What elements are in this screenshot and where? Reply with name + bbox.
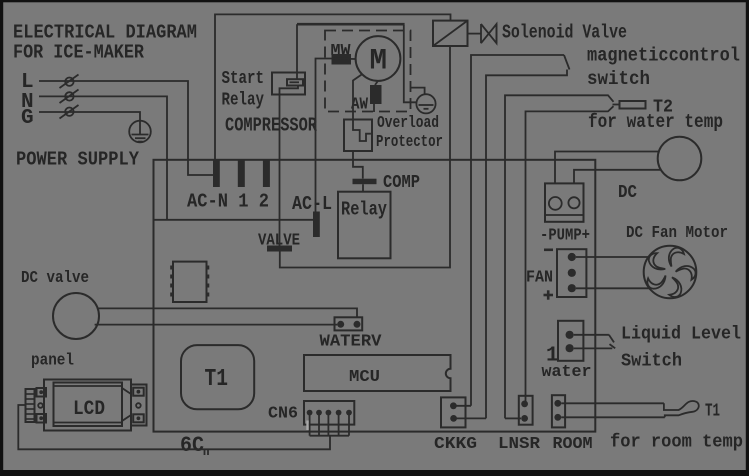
FAN connector	[557, 249, 586, 297]
wire LNSR bottom	[505, 417, 521, 419]
svg-text:WATERV: WATERV	[320, 333, 383, 352]
terminal bar 1	[238, 160, 245, 187]
wire 6C bus to panel	[18, 405, 330, 449]
CKKG connector	[441, 397, 466, 427]
solenoid valve symbol	[468, 24, 497, 43]
wire level switch upper	[574, 335, 614, 343]
svg-text:POWER SUPPLY: POWER SUPPLY	[16, 149, 140, 171]
wire room probe lower	[561, 416, 665, 418]
wire AC-L branch	[154, 219, 314, 221]
wire N line	[39, 96, 167, 220]
wire room probe upper	[561, 402, 664, 404]
DC pump motor circle	[658, 137, 702, 181]
wire T2 lower	[526, 106, 614, 404]
svg-text:LCD: LCD	[73, 398, 105, 421]
wire L line	[39, 81, 213, 175]
relay box	[338, 192, 391, 259]
wire magnetic switch upper	[471, 55, 564, 406]
start relay contact	[287, 79, 303, 85]
wire pump plus	[555, 152, 659, 184]
water level connector	[558, 321, 583, 361]
VALVE terminal bar	[267, 246, 292, 252]
switch on L	[60, 75, 79, 89]
svg-text:Relay: Relay	[341, 199, 387, 221]
LCD right bracket	[131, 385, 147, 426]
MW terminal	[332, 54, 352, 65]
compressor housing (dashed)	[325, 31, 411, 112]
svg-text:Protector: Protector	[376, 133, 443, 152]
svg-text:G: G	[21, 107, 34, 130]
DC valve motor circle	[53, 293, 99, 339]
6C subscript mark	[205, 449, 209, 456]
overload thermal disc	[416, 94, 435, 113]
svg-text:Start: Start	[222, 69, 265, 89]
wire T2 link	[613, 104, 620, 106]
svg-text:for water temp: for water temp	[588, 111, 723, 133]
T1 room probe	[664, 401, 699, 417]
fan motor circle	[644, 246, 697, 299]
artifact light dash	[306, 421, 308, 431]
start relay R box	[272, 73, 305, 95]
wire level switch lower	[574, 344, 616, 348]
svg-text:DC: DC	[618, 183, 637, 203]
svg-text:T1: T1	[205, 366, 229, 393]
switch on G	[60, 105, 79, 119]
svg-text:Solenoid Valve: Solenoid Valve	[502, 22, 627, 44]
AC-N terminal bar	[213, 160, 220, 187]
svg-text:M: M	[370, 45, 388, 79]
motor M circle	[356, 36, 401, 81]
WATERV connector	[335, 317, 363, 330]
main control board box	[154, 160, 596, 432]
svg-text:ROOM: ROOM	[553, 435, 593, 454]
T1 transformer box	[181, 345, 254, 409]
svg-text:COMP: COMP	[383, 173, 420, 193]
thick supply bus	[297, 23, 405, 26]
svg-text:ELECTRICAL DIAGRAM: ELECTRICAL DIAGRAM	[13, 22, 197, 44]
wire CKKG top	[453, 405, 471, 407]
wire relay to VALVE bar	[280, 86, 299, 246]
wire T2 upper	[505, 95, 614, 418]
switch on N	[60, 90, 79, 104]
wire protector to COMP	[353, 151, 363, 179]
wire AW stub	[373, 104, 375, 112]
CN6 connector	[304, 401, 354, 425]
svg-text:switch: switch	[587, 68, 650, 90]
svg-text:-PUMP+: -PUMP+	[540, 227, 590, 246]
svg-text:water: water	[542, 363, 592, 382]
svg-text:DC valve: DC valve	[21, 269, 89, 288]
LCD pin connector	[26, 389, 35, 422]
wire start-relay feed	[296, 24, 298, 79]
wire fan plus	[576, 256, 649, 258]
svg-text:Overload: Overload	[377, 114, 439, 133]
PUMP connector	[545, 183, 584, 221]
svg-text:Switch: Switch	[621, 352, 682, 372]
svg-text:COMPRESSOR: COMPRESSOR	[225, 115, 317, 137]
fan blades	[644, 248, 697, 300]
wire magnetic switch lower	[486, 70, 567, 419]
ROOM connector	[552, 395, 565, 427]
terminal bar 2	[263, 160, 270, 187]
svg-text:FOR ICE-MAKER: FOR ICE-MAKER	[13, 42, 144, 64]
wire housing top to overload	[404, 25, 417, 102]
wire G line	[39, 112, 140, 135]
svg-text:AC-N 1 2: AC-N 1 2	[187, 191, 269, 213]
minus sign (fan)	[544, 249, 553, 252]
wire main winding to protector	[353, 74, 362, 119]
svg-text:Liquid Level: Liquid Level	[621, 325, 741, 345]
svg-text:magneticcontrol: magneticcontrol	[587, 45, 740, 67]
switch blade	[564, 55, 570, 70]
MCU box	[304, 355, 451, 391]
plus sign (fan)	[544, 290, 554, 299]
svg-text:LNSR: LNSR	[498, 435, 541, 454]
ground (protective earth)	[129, 121, 151, 143]
svg-text:FAN: FAN	[526, 269, 553, 288]
wire DC valve lower	[95, 324, 338, 326]
solenoid coil box	[433, 21, 468, 46]
svg-text:6C: 6C	[180, 433, 204, 458]
compressor outer box	[215, 14, 451, 162]
T2 sensor body	[620, 101, 646, 109]
wire CKKG bottom	[454, 417, 486, 419]
svg-text:MCU: MCU	[349, 368, 380, 387]
LNSR connector	[519, 396, 533, 425]
COMP terminal bar	[353, 179, 377, 185]
wire fan minus	[576, 287, 650, 289]
svg-text:DC Fan Motor: DC Fan Motor	[626, 224, 728, 243]
svg-text:AC-L: AC-L	[292, 193, 332, 215]
svg-text:CKKG: CKKG	[434, 435, 477, 454]
AC-L terminal bar	[313, 212, 320, 238]
LCD module body	[44, 380, 131, 431]
wire valve circuit	[280, 46, 450, 268]
IC chip	[170, 262, 209, 302]
svg-text:T1: T1	[705, 402, 720, 422]
wire pump minus	[574, 170, 661, 184]
svg-text:Relay: Relay	[222, 91, 265, 111]
svg-text:CN6: CN6	[268, 405, 298, 424]
CN6 pin harness	[310, 413, 349, 436]
wire housing side to overload	[411, 88, 425, 95]
overload protector box	[344, 120, 372, 152]
wire MW feed	[316, 59, 356, 212]
AW terminal	[370, 85, 382, 104]
wire DC valve upper	[99, 308, 357, 317]
LCD left mounts	[37, 388, 47, 423]
wire COMP to relay	[362, 184, 364, 192]
svg-text:for room temp: for room temp	[610, 433, 743, 453]
svg-text:panel: panel	[31, 352, 74, 371]
wire motor to AW	[375, 81, 378, 85]
